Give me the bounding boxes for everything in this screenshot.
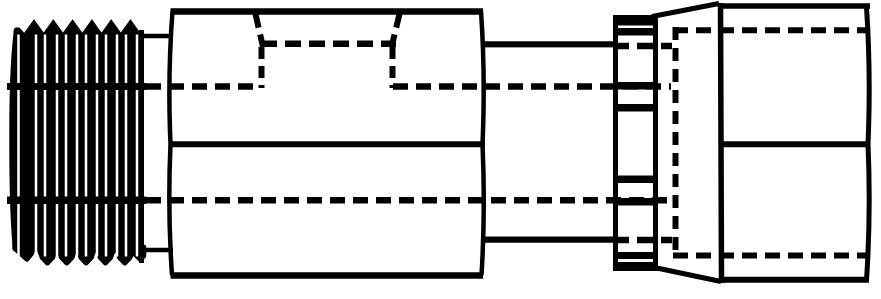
nut hidden thread bottom line	[673, 253, 867, 259]
thread slit 12	[136, 35, 139, 257]
thread slit 8	[96, 35, 99, 257]
thread crest 4	[83, 23, 100, 35]
thread crest 5	[103, 23, 120, 35]
thread slit 5	[65, 35, 68, 257]
nut nose top slant	[652, 4, 719, 17]
shaft top line	[483, 41, 616, 47]
thread end face line	[139, 30, 144, 263]
thread slit 10	[116, 35, 119, 257]
thread slit 3	[44, 35, 47, 257]
collar band 4	[613, 176, 658, 184]
collar band 2	[615, 28, 656, 36]
thread slit 9	[105, 35, 108, 257]
nut bottom edge	[720, 277, 869, 283]
collar band at upper bore	[613, 82, 658, 90]
lower bore line crossing thread (solid)	[7, 197, 146, 205]
thread slit 6	[76, 35, 79, 257]
hidden chamfer right diagonal	[392, 14, 400, 47]
thread body	[9, 30, 144, 251]
collar band 5	[613, 252, 658, 259]
thread crest 1	[25, 23, 42, 35]
upper bore line crossing thread (solid)	[7, 83, 146, 90]
collar bottom slit	[619, 259, 650, 262]
hex body bottom edge	[171, 272, 484, 279]
lower bore hidden line	[146, 197, 671, 204]
thread slit 4	[56, 35, 59, 257]
shaft bottom line	[483, 237, 616, 243]
thread root point 4	[97, 249, 113, 263]
thread slit 2	[35, 35, 38, 257]
thread slit 7	[85, 35, 88, 257]
hex body left edge	[169, 11, 172, 275]
collar band at lower bore	[613, 198, 658, 206]
collar band 3	[613, 104, 658, 112]
collar left vertical	[613, 15, 618, 271]
upper bore hidden line right of step	[393, 83, 671, 90]
hidden chamfer left diagonal	[256, 14, 264, 47]
thread left shoulder bump	[14, 27, 27, 45]
hex body right edge	[481, 11, 484, 275]
collar top cap	[613, 15, 658, 26]
nut top edge	[718, 3, 870, 9]
hex flat boundary line	[169, 141, 485, 147]
hidden thread major line	[261, 40, 396, 47]
thread crest 2	[45, 23, 62, 35]
hex body top edge	[171, 8, 484, 15]
nut hidden thread end vertical	[673, 27, 679, 258]
thread crest 3	[64, 23, 81, 35]
hidden shaft bottom line through collar	[613, 237, 672, 244]
thread root point 1	[39, 249, 55, 263]
neck bottom line	[140, 248, 173, 253]
thread slit 11	[125, 35, 128, 257]
thread root point left partial	[15, 244, 34, 260]
collar right vertical	[653, 15, 658, 270]
nut right edge	[867, 7, 870, 280]
upper bore hidden line left of step	[146, 83, 259, 90]
thread root point 2	[59, 249, 75, 263]
thread root point 5	[117, 249, 133, 263]
thread root point 3	[78, 249, 94, 263]
hidden shaft top line through collar	[613, 43, 672, 50]
thread crest 6	[122, 23, 139, 35]
nut flat boundary line	[719, 141, 869, 147]
hidden step right vertical	[390, 47, 396, 88]
thread slit 1	[17, 35, 20, 257]
collar bottom cap	[613, 262, 658, 271]
nut nose bottom slant	[652, 267, 721, 282]
thread root point right merged	[133, 247, 144, 260]
nut corner line	[721, 3, 722, 283]
collar top slit	[619, 26, 652, 29]
nut hidden thread top line	[673, 27, 867, 33]
hidden step left vertical	[259, 47, 265, 88]
neck top line	[140, 34, 173, 39]
